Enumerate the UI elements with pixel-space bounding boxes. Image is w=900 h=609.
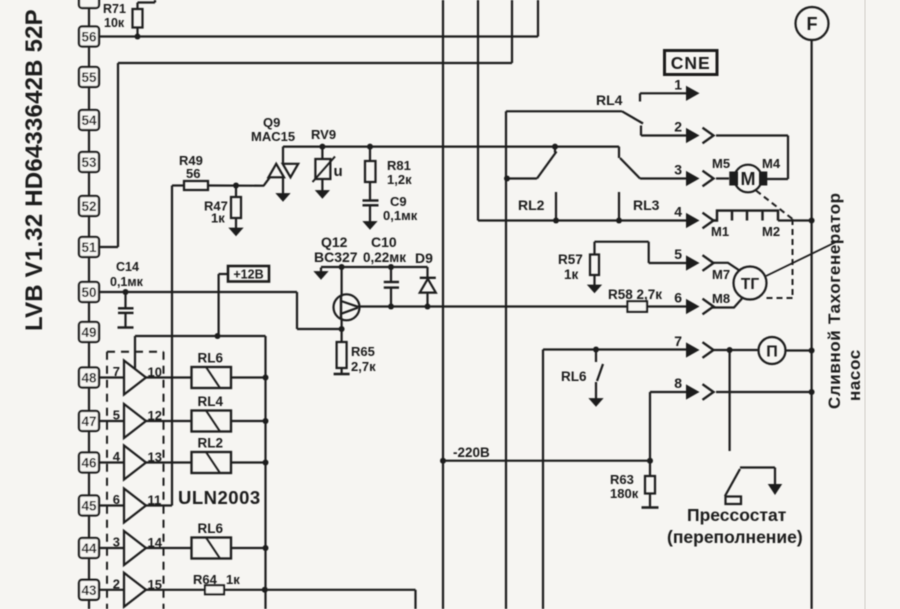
svg-text:4: 4 bbox=[113, 449, 121, 464]
svg-text:R81: R81 bbox=[387, 158, 411, 173]
svg-text:C14: C14 bbox=[116, 260, 139, 274]
svg-text:7: 7 bbox=[674, 333, 682, 349]
svg-text:3: 3 bbox=[674, 162, 682, 178]
svg-text:MAC15: MAC15 bbox=[251, 129, 295, 144]
svg-text:0,22мк: 0,22мк bbox=[363, 250, 406, 265]
svg-text:D9: D9 bbox=[415, 250, 433, 266]
svg-text:5: 5 bbox=[113, 408, 120, 423]
svg-text:M: M bbox=[741, 169, 756, 189]
svg-text:54: 54 bbox=[81, 113, 97, 128]
svg-text:0,1мк: 0,1мк bbox=[110, 275, 144, 289]
svg-text:LVB V1.32 HD6433642B 52P: LVB V1.32 HD6433642B 52P bbox=[21, 9, 48, 331]
svg-text:RL6: RL6 bbox=[198, 521, 224, 536]
svg-text:47: 47 bbox=[81, 414, 96, 429]
svg-text:8: 8 bbox=[674, 375, 682, 391]
svg-text:1к: 1к bbox=[211, 211, 225, 226]
svg-text:П: П bbox=[766, 344, 778, 361]
svg-text:53: 53 bbox=[81, 155, 97, 170]
svg-text:C9: C9 bbox=[390, 194, 407, 209]
svg-text:M2: M2 bbox=[762, 224, 780, 239]
svg-text:M8: M8 bbox=[712, 291, 730, 306]
svg-text:C10: C10 bbox=[371, 234, 397, 250]
svg-text:R64: R64 bbox=[193, 572, 218, 587]
svg-text:ULN2003: ULN2003 bbox=[178, 487, 261, 508]
svg-text:1: 1 bbox=[674, 76, 682, 92]
svg-text:+12В: +12В bbox=[233, 268, 263, 282]
svg-text:M5: M5 bbox=[712, 156, 730, 171]
svg-text:Сливной: Сливной bbox=[825, 330, 844, 409]
svg-text:Тахогенератор: Тахогенератор bbox=[825, 192, 844, 324]
svg-text:RL2: RL2 bbox=[198, 436, 224, 451]
svg-text:4: 4 bbox=[674, 204, 682, 220]
svg-text:R65: R65 bbox=[351, 344, 375, 359]
svg-text:RL6: RL6 bbox=[198, 351, 224, 366]
svg-text:50: 50 bbox=[81, 285, 96, 300]
svg-text:2: 2 bbox=[113, 576, 120, 591]
svg-text:56: 56 bbox=[81, 30, 97, 45]
svg-text:55: 55 bbox=[81, 70, 97, 85]
svg-text:1к: 1к bbox=[226, 572, 240, 587]
svg-text:насос: насос bbox=[845, 349, 864, 401]
svg-text:u: u bbox=[334, 163, 343, 180]
svg-text:3: 3 bbox=[113, 535, 120, 550]
svg-text:49: 49 bbox=[81, 325, 96, 340]
svg-text:R58 2,7к: R58 2,7к bbox=[608, 287, 662, 302]
svg-text:BC327: BC327 bbox=[314, 249, 358, 265]
svg-text:2,7к: 2,7к bbox=[351, 359, 376, 374]
svg-text:1,2к: 1,2к bbox=[387, 172, 412, 187]
svg-text:Q9: Q9 bbox=[263, 115, 280, 130]
svg-text:-220В: -220В bbox=[453, 445, 490, 460]
svg-text:F: F bbox=[807, 14, 818, 34]
svg-text:180к: 180к bbox=[610, 486, 639, 501]
svg-text:M7: M7 bbox=[712, 267, 730, 282]
svg-text:52: 52 bbox=[81, 199, 96, 214]
svg-text:Прессостат: Прессостат bbox=[687, 505, 787, 525]
svg-text:6: 6 bbox=[674, 290, 682, 306]
svg-text:7: 7 bbox=[113, 364, 120, 379]
svg-text:ТГ: ТГ bbox=[741, 276, 759, 293]
svg-text:M4: M4 bbox=[762, 156, 781, 171]
svg-text:RL2: RL2 bbox=[518, 197, 545, 213]
svg-text:56: 56 bbox=[186, 166, 200, 181]
svg-text:10к: 10к bbox=[104, 16, 125, 30]
svg-text:R57: R57 bbox=[558, 252, 583, 267]
svg-text:RL6: RL6 bbox=[561, 369, 587, 384]
svg-text:45: 45 bbox=[81, 499, 97, 514]
svg-text:48: 48 bbox=[81, 371, 97, 386]
svg-text:43: 43 bbox=[81, 583, 97, 598]
svg-text:RL4: RL4 bbox=[596, 92, 623, 108]
svg-text:51: 51 bbox=[81, 240, 97, 255]
svg-text:44: 44 bbox=[81, 541, 97, 556]
svg-text:1к: 1к bbox=[564, 267, 579, 282]
svg-text:RL4: RL4 bbox=[198, 394, 224, 409]
svg-text:RV9: RV9 bbox=[311, 127, 336, 142]
svg-text:Q12: Q12 bbox=[321, 234, 348, 250]
svg-text:2: 2 bbox=[674, 119, 682, 135]
svg-text:46: 46 bbox=[81, 456, 97, 471]
svg-text:RL3: RL3 bbox=[633, 197, 660, 213]
svg-text:6: 6 bbox=[113, 492, 120, 507]
svg-text:0,1мк: 0,1мк bbox=[383, 208, 418, 223]
svg-text:R63: R63 bbox=[610, 472, 634, 487]
svg-text:(переполнение): (переполнение) bbox=[667, 527, 803, 547]
svg-text:R71: R71 bbox=[103, 2, 126, 16]
svg-text:CNE: CNE bbox=[671, 53, 711, 73]
svg-text:5: 5 bbox=[674, 246, 682, 262]
svg-text:M1: M1 bbox=[711, 224, 729, 239]
